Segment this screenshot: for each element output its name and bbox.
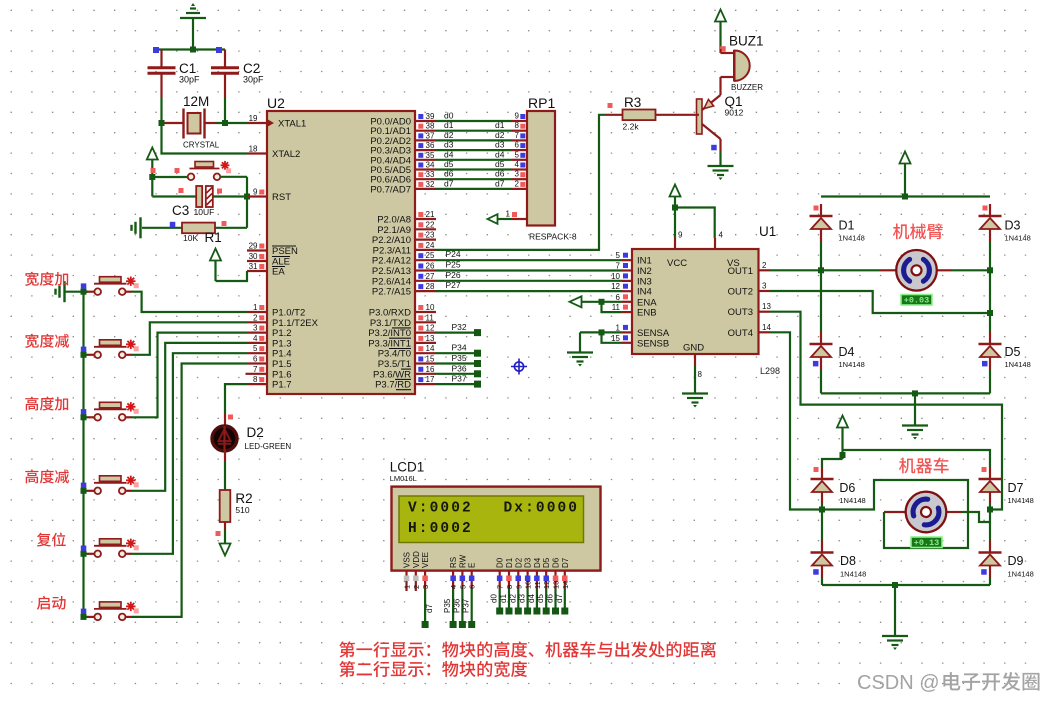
pin 38 P0.1/AD1 (370, 122, 436, 138)
svg-text:BUZ1: BUZ1 (729, 34, 764, 49)
svg-text:1N4148: 1N4148 (840, 570, 866, 579)
pin 14 OUT4 (728, 323, 772, 339)
svg-text:30: 30 (249, 252, 258, 261)
svg-text:d0: d0 (490, 594, 499, 603)
lcd LCD1 LM016L (390, 460, 601, 571)
wire net d5 (436, 159, 527, 170)
svg-text:3: 3 (515, 170, 520, 179)
wire net P36 (436, 363, 481, 377)
pin 10 P3.0/RXD (369, 303, 436, 319)
wire net P24 (436, 249, 622, 260)
pin 16 P3.6/WR (373, 365, 436, 381)
svg-text:8: 8 (698, 370, 703, 379)
pin 34 P0.5/AD5 (370, 161, 436, 177)
pin 37 P0.2/AD2 (370, 131, 436, 147)
svg-text:10: 10 (524, 581, 533, 589)
wire net d7 (436, 178, 527, 189)
wire (126, 364, 248, 617)
pin 36 P0.3/AD3 (370, 141, 436, 157)
diode D1 1N4148 (810, 204, 865, 243)
svg-text:R3: R3 (624, 95, 641, 110)
pin 7 P1.6 (246, 365, 292, 381)
pin 12 P3.2/INT0 (368, 324, 436, 340)
svg-text:H:0002: H:0002 (408, 521, 473, 537)
wire (719, 151, 721, 166)
svg-text:D2: D2 (247, 425, 264, 440)
wire (81, 283, 95, 294)
svg-text:26: 26 (426, 262, 435, 271)
svg-text:21: 21 (426, 210, 435, 219)
svg-text:1N4148: 1N4148 (839, 234, 865, 243)
label arm (893, 223, 943, 239)
power arrow VCC (900, 152, 911, 197)
wire (224, 462, 226, 490)
svg-text:6: 6 (253, 355, 258, 364)
svg-text:14: 14 (426, 344, 435, 353)
svg-text:4: 4 (515, 160, 520, 169)
wire (81, 409, 95, 420)
pin 28 P2.7/A15 (372, 282, 436, 298)
svg-text:OUT1: OUT1 (728, 266, 753, 277)
svg-text:OUT4: OUT4 (728, 328, 753, 339)
svg-text:6: 6 (616, 293, 621, 302)
svg-text:SENSB: SENSB (637, 338, 669, 349)
buzzer BUZ1 (720, 34, 763, 93)
ground (682, 394, 708, 408)
svg-text:10K: 10K (183, 233, 198, 243)
svg-text:4: 4 (719, 231, 724, 240)
svg-text:5: 5 (458, 585, 467, 589)
origin marker (511, 359, 527, 375)
wire top rail (843, 450, 991, 467)
svg-text:P34: P34 (452, 343, 467, 353)
svg-text:32: 32 (426, 180, 435, 189)
svg-text:22: 22 (426, 220, 435, 229)
svg-text:VCC: VCC (667, 258, 687, 269)
svg-text:VSS: VSS (403, 552, 412, 568)
pin 3 P1.2 (247, 324, 292, 340)
svg-text:RESPACK-8: RESPACK-8 (529, 232, 577, 242)
pin 29 PSEN (247, 242, 298, 258)
pin 30 ALE (247, 252, 290, 268)
label 高度加 (25, 397, 68, 411)
svg-text:VDD: VDD (412, 551, 421, 568)
svg-text:2: 2 (762, 261, 767, 270)
pin 10 IN3 (611, 272, 652, 288)
svg-text:OUT2: OUT2 (728, 287, 753, 298)
pin 8 D1 (499, 557, 514, 614)
label car (899, 458, 949, 474)
wire (81, 546, 95, 557)
pin 33 P0.6/AD6 (370, 170, 436, 186)
wire (153, 47, 225, 54)
svg-text:17: 17 (426, 375, 435, 384)
wire (225, 384, 247, 414)
svg-text:RP1: RP1 (528, 95, 555, 111)
wire (126, 322, 248, 355)
svg-text:1: 1 (403, 585, 412, 589)
svg-text:24: 24 (426, 241, 435, 250)
svg-text:34: 34 (426, 161, 435, 170)
svg-text:38: 38 (426, 122, 435, 131)
svg-text:C3: C3 (172, 203, 189, 218)
svg-text:11: 11 (533, 581, 542, 589)
pin 8 P1.7 (247, 375, 292, 391)
svg-text:d4: d4 (444, 149, 454, 159)
pin 22 P2.1/A9 (377, 220, 436, 236)
wire net P37 (436, 374, 481, 388)
wire net d3 (436, 140, 527, 151)
svg-text:510: 510 (235, 505, 249, 515)
svg-text:9: 9 (514, 585, 523, 589)
pin 9 D2 (508, 557, 523, 614)
wire (989, 270, 991, 332)
svg-text:RW: RW (458, 554, 467, 568)
capacitor C1 (148, 50, 201, 98)
led D2 LED-GREEN (212, 414, 291, 462)
svg-text:D3: D3 (1005, 219, 1021, 233)
svg-text:8: 8 (515, 121, 520, 130)
svg-text:18: 18 (249, 145, 258, 154)
svg-text:d3: d3 (518, 594, 527, 603)
svg-text:9: 9 (253, 188, 258, 197)
svg-text:D6: D6 (552, 557, 561, 568)
svg-text:V:0002: V:0002 (408, 501, 473, 517)
pin 14 P3.4/T0 (378, 344, 436, 360)
svg-text:d4: d4 (495, 149, 505, 159)
svg-text:+0.03: +0.03 (904, 296, 930, 306)
svg-text:P37: P37 (462, 598, 471, 613)
svg-text:d7: d7 (425, 604, 434, 613)
svg-text:d0: d0 (444, 111, 454, 121)
pin 17 P3.7/RD (375, 375, 436, 391)
pin 13 OUT3 (728, 302, 772, 318)
svg-text:6: 6 (468, 585, 477, 589)
button 宽度减 (94, 340, 139, 359)
svg-text:27: 27 (426, 272, 435, 281)
svg-text:L298: L298 (760, 366, 780, 376)
power arrow VCC (210, 249, 221, 282)
wire (126, 353, 248, 554)
pin 25 P2.4/A12 (372, 251, 436, 267)
svg-text:RS: RS (449, 557, 458, 568)
svg-text:15: 15 (611, 334, 620, 343)
svg-text:14: 14 (561, 581, 570, 589)
note line2 (339, 661, 527, 677)
svg-text:37: 37 (426, 131, 435, 140)
wire net P34 (436, 343, 481, 357)
wire (579, 332, 581, 352)
resistor R2 510 (216, 490, 253, 536)
pin 12 IN4 (611, 282, 652, 298)
label 高度减 (25, 469, 69, 483)
button 高度加 (94, 402, 139, 421)
svg-text:EA: EA (272, 267, 285, 278)
svg-text:4: 4 (449, 585, 458, 589)
pin 27 P2.6/A14 (372, 272, 436, 288)
pin 6 P1.5 (247, 355, 292, 371)
svg-text:P32: P32 (452, 322, 467, 332)
wire bottom rail (822, 582, 990, 588)
svg-text:10: 10 (426, 303, 435, 312)
svg-text:5: 5 (616, 251, 621, 260)
svg-text:31: 31 (249, 262, 258, 271)
svg-text:16: 16 (426, 365, 435, 374)
svg-text:1N4148: 1N4148 (1005, 360, 1031, 369)
pin 24 P2.3/A11 (373, 241, 436, 257)
svg-text:4: 4 (253, 334, 258, 343)
svg-text:D2: D2 (514, 557, 523, 568)
diode D4 1N4148 (810, 270, 865, 393)
wire (224, 97, 226, 123)
wire (81, 347, 95, 358)
svg-text:CRYSTAL: CRYSTAL (183, 141, 220, 150)
svg-text:23: 23 (426, 231, 435, 240)
svg-text:CSDN @: CSDN @ (857, 672, 940, 694)
svg-text:ENB: ENB (637, 308, 657, 319)
svg-text:1: 1 (506, 210, 511, 219)
svg-text:33: 33 (426, 170, 435, 179)
wire ENB (602, 302, 623, 312)
svg-text:d1: d1 (495, 120, 505, 130)
pin 5 RW (452, 554, 467, 628)
svg-text:VEE: VEE (421, 552, 430, 568)
pin 5 IN1 (616, 251, 652, 267)
wire (962, 512, 990, 522)
wire (220, 177, 250, 228)
svg-text:1N4148: 1N4148 (1005, 234, 1031, 243)
svg-text:D5: D5 (1005, 345, 1021, 359)
wire net d0 (436, 111, 527, 122)
svg-text:U1: U1 (759, 224, 776, 239)
svg-text:9: 9 (515, 112, 520, 121)
wire (987, 241, 993, 273)
wire OUT4 (770, 332, 825, 512)
svg-text:1: 1 (616, 323, 621, 332)
svg-text:35: 35 (426, 151, 435, 160)
svg-text:d3: d3 (444, 140, 454, 150)
svg-text:13: 13 (552, 581, 561, 589)
svg-text:U2: U2 (267, 95, 285, 111)
pin 1 RP1 (488, 210, 528, 224)
svg-text:P36: P36 (452, 363, 467, 373)
wire (914, 393, 916, 425)
svg-text:30pF: 30pF (179, 75, 200, 85)
diode D5 1N4148 (979, 332, 1031, 393)
svg-text:IN2: IN2 (637, 266, 652, 277)
diode D9 1N4148 (979, 541, 1034, 586)
resistor R1 10K (142, 221, 247, 245)
wire top rail (821, 194, 990, 200)
svg-text:P25: P25 (446, 260, 461, 270)
power arrow VCC (670, 185, 681, 208)
crystal X1 12M (162, 94, 220, 150)
wire bottom rail (821, 390, 990, 396)
wire ENA (570, 296, 623, 307)
svg-text:D1: D1 (505, 557, 514, 568)
svg-text:11: 11 (426, 313, 435, 322)
diode D3 1N4148 (979, 204, 1031, 243)
wire (126, 333, 248, 418)
svg-text:D3: D3 (524, 557, 533, 568)
svg-text:10: 10 (611, 272, 620, 281)
svg-text:28: 28 (426, 282, 435, 291)
svg-text:2.2k: 2.2k (623, 122, 640, 132)
lcd text (408, 501, 579, 538)
svg-text:13: 13 (762, 302, 771, 311)
svg-text:XTAL2: XTAL2 (272, 149, 300, 160)
svg-text:BUZZER: BUZZER (731, 83, 763, 92)
svg-text:P27: P27 (446, 280, 461, 290)
label 宽度减 (25, 334, 69, 348)
svg-text:2: 2 (412, 585, 421, 589)
wire (81, 609, 95, 620)
svg-text:GND: GND (683, 343, 704, 354)
pin 11 P3.1/TXD (370, 313, 436, 329)
wire (160, 97, 162, 123)
power arrow VCC (837, 416, 848, 460)
diode D7 1N4148 (979, 467, 1034, 505)
wire bus (82, 292, 84, 617)
ground (708, 166, 734, 180)
pin 6 E (462, 563, 477, 628)
wire net d2 (436, 130, 527, 141)
svg-text:E: E (468, 563, 477, 568)
pin 31 EA (247, 262, 285, 278)
svg-text:d7: d7 (555, 594, 564, 603)
pin 39 P0.0/AD0 (370, 112, 436, 128)
pin 3 VEE (421, 552, 434, 628)
svg-text:10UF: 10UF (194, 207, 215, 217)
ground (132, 217, 141, 238)
svg-text:3: 3 (421, 585, 430, 589)
pin 1 P1.0/T2 (247, 303, 305, 319)
svg-text:D1: D1 (839, 219, 855, 233)
ground (882, 636, 908, 650)
svg-text:D8: D8 (840, 554, 856, 568)
wire net P25 (436, 260, 622, 271)
wire (952, 269, 990, 271)
svg-text:1N4148: 1N4148 (1008, 570, 1034, 579)
wire (894, 585, 896, 636)
capacitor C2 (211, 50, 264, 98)
resistor R3 2.2k (606, 95, 699, 132)
svg-text:36: 36 (426, 141, 435, 150)
note line1 (339, 641, 716, 657)
pin 9 RST (247, 188, 291, 204)
transistor Q1 9012 (697, 81, 744, 151)
svg-text:D7: D7 (561, 557, 570, 568)
wire OUT1 (770, 269, 821, 271)
wire net P26 (436, 270, 622, 281)
pin 7 IN2 (616, 262, 652, 278)
pin 10 D3 (518, 557, 533, 614)
ground (902, 426, 928, 440)
wire (821, 504, 823, 541)
wire net d1 (436, 120, 527, 131)
wire (126, 343, 248, 491)
svg-text:P3.7/RD: P3.7/RD (375, 380, 411, 391)
svg-text:1N4148: 1N4148 (1008, 496, 1034, 505)
wire (149, 174, 188, 197)
svg-text:d3: d3 (495, 140, 505, 150)
label 启动 (37, 596, 66, 610)
pin 2 P1.1/T2EX (247, 313, 319, 329)
power arrow down (220, 529, 231, 556)
svg-text:9012: 9012 (725, 108, 744, 118)
probe +0.13 (911, 537, 942, 548)
svg-text:D9: D9 (1008, 554, 1024, 568)
svg-text:1: 1 (253, 303, 258, 312)
svg-text:P0.7/AD7: P0.7/AD7 (370, 184, 411, 195)
svg-text:d1: d1 (499, 594, 508, 603)
ground (180, 3, 206, 50)
pin 12 D5 (536, 557, 551, 614)
svg-text:d5: d5 (536, 594, 545, 603)
svg-text:11: 11 (612, 303, 621, 312)
svg-text:12M: 12M (183, 94, 209, 109)
pin 2 VDD (412, 551, 421, 591)
driver U1 L298 (632, 224, 780, 376)
pin 1 SENSA (616, 323, 670, 339)
wire (81, 483, 95, 494)
pin 14 D7 (555, 557, 570, 614)
svg-text:19: 19 (249, 114, 258, 123)
svg-text:d6: d6 (495, 169, 505, 179)
wire (126, 292, 248, 312)
svg-text:5: 5 (253, 344, 258, 353)
probe +0.03 (901, 295, 932, 306)
svg-text:+0.13: +0.13 (914, 538, 940, 548)
wire SENSB (602, 332, 623, 342)
svg-text:d4: d4 (527, 594, 536, 603)
svg-text:d7: d7 (444, 178, 454, 188)
svg-text:7: 7 (515, 131, 520, 140)
svg-text:P24: P24 (446, 249, 461, 259)
svg-text:OUT3: OUT3 (728, 307, 753, 318)
svg-text:3: 3 (762, 282, 767, 291)
pin 32 P0.7/AD7 (370, 180, 436, 196)
wire EA (216, 271, 248, 281)
svg-text:LCD1: LCD1 (390, 460, 425, 475)
svg-text:30pF: 30pF (243, 75, 264, 85)
pin 13 D6 (546, 557, 561, 614)
ground (567, 353, 593, 367)
wire (672, 205, 715, 239)
pin 35 P0.4/AD4 (370, 151, 436, 167)
pin 15 SENSB (611, 334, 669, 350)
wire (162, 123, 248, 154)
pin 19 XTAL1 (247, 114, 306, 130)
wire net P27 (436, 280, 622, 291)
pin 3 OUT2 (728, 282, 770, 298)
svg-text:13: 13 (426, 334, 435, 343)
power arrow VCC (147, 148, 158, 178)
svg-text:39: 39 (426, 112, 435, 121)
pin 4 VS (715, 231, 724, 250)
svg-text:P2.7/A15: P2.7/A15 (372, 287, 411, 298)
svg-text:P35: P35 (452, 353, 467, 363)
svg-text:7: 7 (616, 262, 621, 271)
wire (822, 480, 968, 548)
svg-text:D7: D7 (1008, 481, 1024, 495)
wire OUT3 (770, 312, 1002, 513)
diode D6 1N4148 (811, 467, 866, 505)
wire (818, 241, 824, 273)
pin 23 P2.2/A10 (372, 231, 436, 247)
motor arm M1 (880, 250, 952, 291)
svg-text:XTAL1: XTAL1 (278, 119, 306, 130)
